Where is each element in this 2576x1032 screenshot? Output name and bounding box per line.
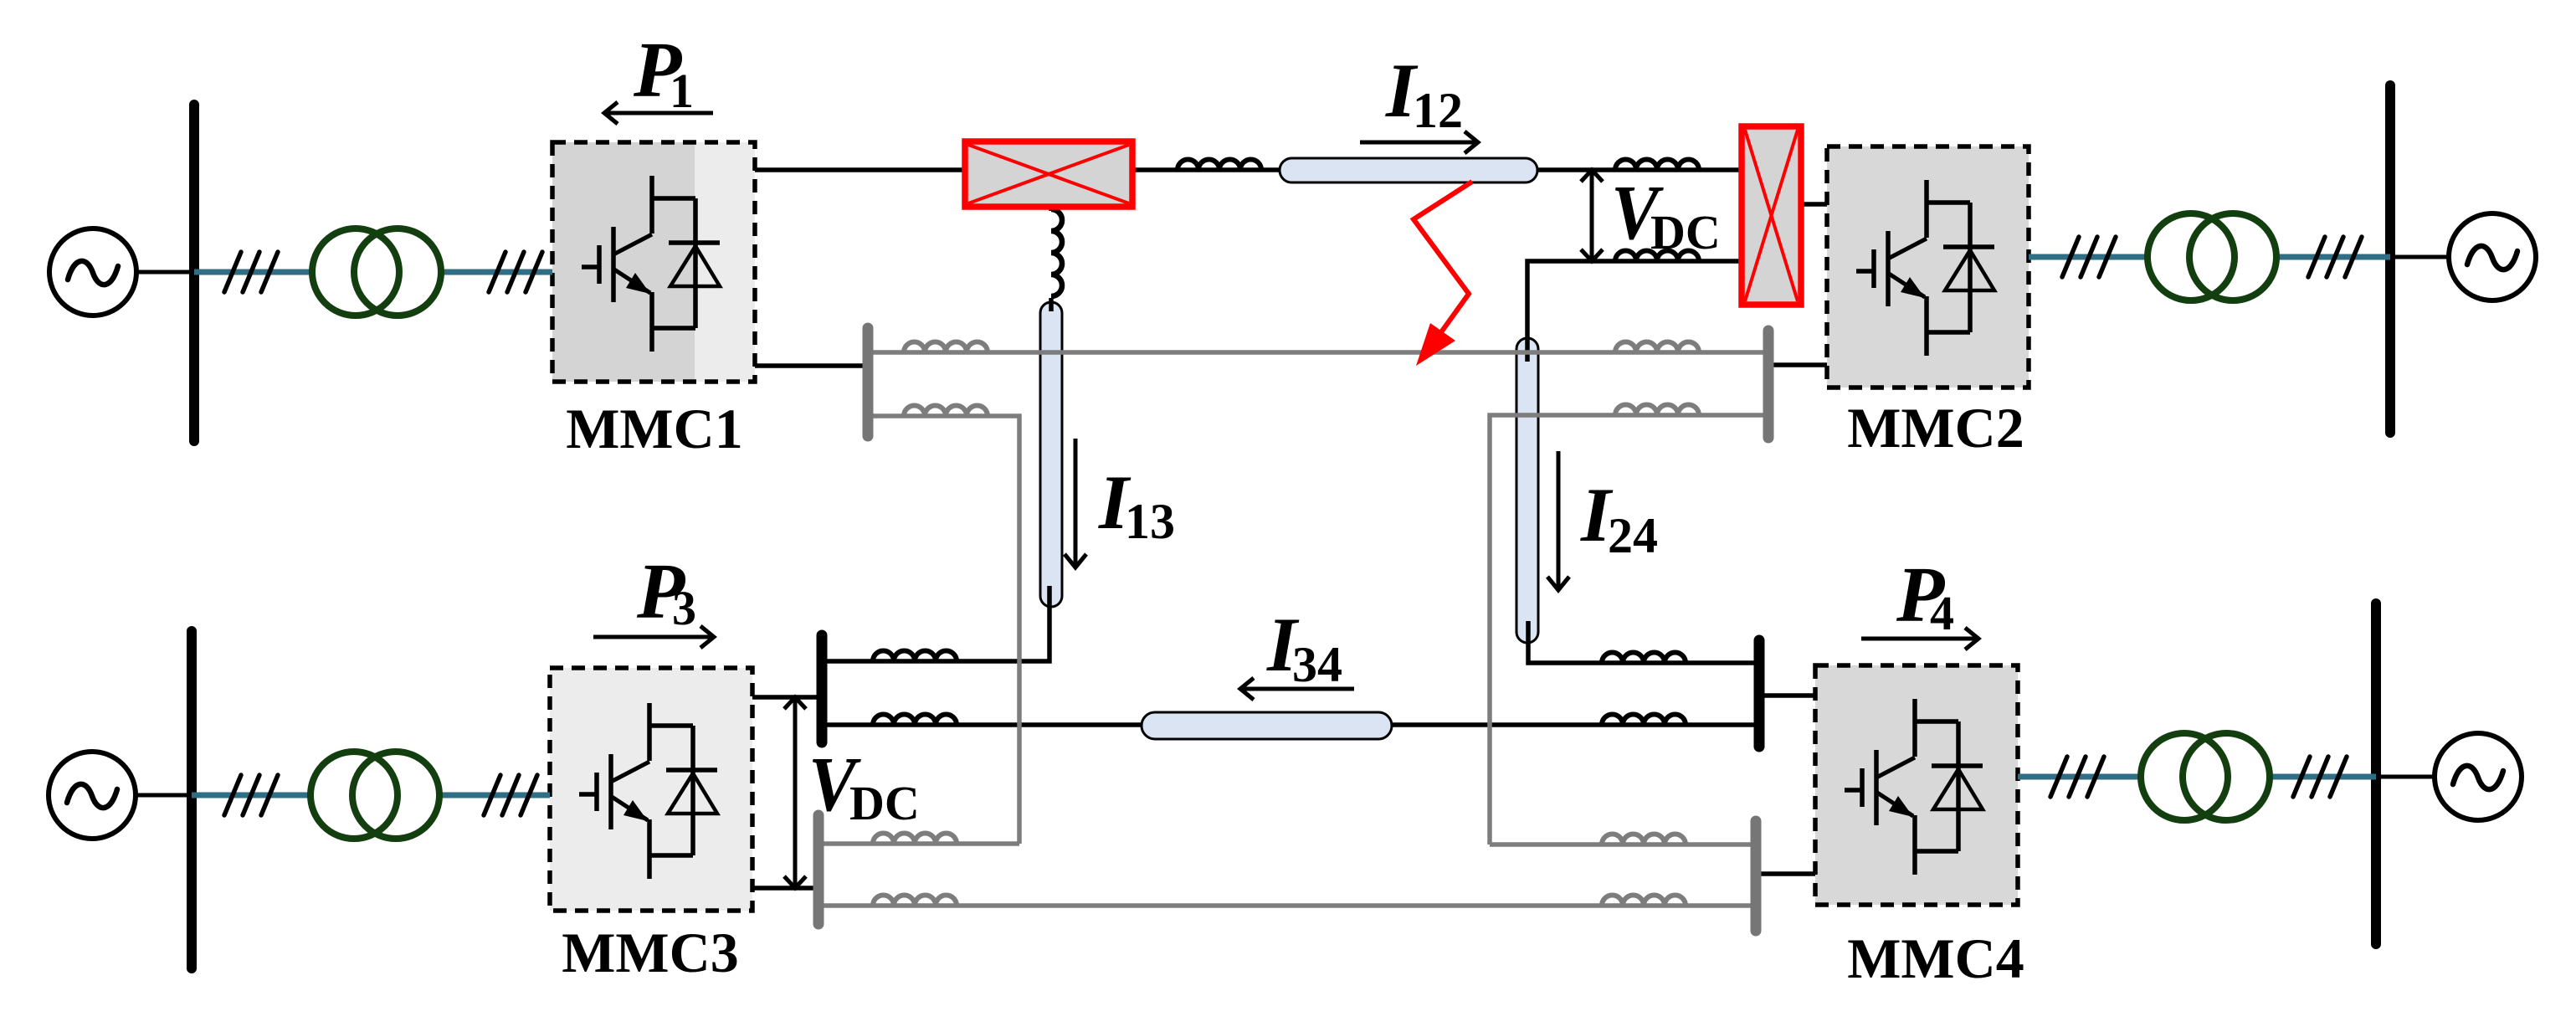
- wire: source G2 to bus: [2390, 255, 2449, 259]
- inductor L34b (MMC4 side of C34): [1602, 715, 1686, 726]
- slashes (3-phase marks) transformer-MMC1: [489, 252, 542, 292]
- wire: cable C12 to breaker B2: [1537, 167, 1742, 172]
- node: AC bus bar 2 (right top): [2385, 85, 2395, 433]
- inductor Lg5 (gray, MMC3 upper neg): [873, 834, 957, 845]
- label I13 with arrow: [1065, 439, 1175, 567]
- slashes (3-phase marks) transformer-bus2: [2308, 237, 2362, 277]
- wire: MMC4 positive port to bus: [1764, 693, 1815, 698]
- transformer T2: [2148, 213, 2276, 300]
- wire: source G1 to bus: [136, 270, 194, 275]
- breaker B2 (hybrid DC circuit breaker, red crossed box): [1742, 126, 1801, 305]
- label P1 with arrow: [604, 27, 713, 124]
- slashes (3-phase marks) bus3-transformer: [224, 775, 278, 815]
- converter MMC3 box: [550, 668, 752, 911]
- svg-text:13: 13: [1125, 494, 1175, 549]
- wire: bottom long gray rail MMC3 to MMC4: [824, 903, 1751, 908]
- inductor L13b (MMC3 top rail): [873, 651, 957, 662]
- label I24 with arrow: [1547, 451, 1658, 590]
- transistor IGBT of MMC1: [582, 176, 720, 352]
- wire: MMC4 negative port to gray bus: [1761, 871, 1815, 876]
- wire: MMC1 negative port to gray bus: [755, 363, 865, 368]
- AC source G2 (right top): [2449, 213, 2536, 300]
- transformer T1: [312, 228, 441, 316]
- vertical inductor L13a (below breaker B1): [1051, 209, 1062, 296]
- transistor IGBT of MMC3: [579, 703, 717, 879]
- svg-text:24: 24: [1608, 508, 1658, 563]
- node: gray DC bus of MMC2 (negative): [1763, 331, 1774, 438]
- slashes (3-phase marks) transformer-MMC3: [484, 775, 537, 815]
- inductor Lg7 (gray, bottom rail left): [873, 896, 957, 906]
- converter MMC4 box: [1815, 665, 2018, 905]
- slashes (3-phase marks) MMC2-transformer: [2062, 237, 2116, 277]
- label P4 with arrow: [1861, 552, 1978, 649]
- slashes (3-phase marks) transformer-bus4: [2293, 757, 2347, 797]
- svg-text:1: 1: [670, 64, 694, 118]
- inductor Lg1 (gray, top-left neg rail): [904, 342, 988, 353]
- inductor Lg2 (gray, top-right neg rail): [1615, 342, 1699, 353]
- wire: MMC3 negative port to gray bus: [752, 886, 813, 891]
- wire: lower rail corner to breaker B2 (MMC2 side): [1527, 261, 1742, 362]
- cable C34 (DC line 3-4): [1142, 712, 1392, 739]
- label VDC (bottom left) with double arrow: [784, 697, 920, 888]
- cable C13 (DC line 1-3): [1040, 302, 1062, 607]
- svg-text:4: 4: [1930, 586, 1954, 640]
- slashes (3-phase marks) MMC4-transformer: [2050, 757, 2104, 797]
- node: gray DC bus of MMC3 (negative): [813, 815, 824, 924]
- wire: gray drop from MMC1 neg bus to MMC3 (left): [873, 416, 1019, 844]
- converter MMC2 box: [1827, 146, 2029, 388]
- wire: AC line MMC2 to bus (teal): [2029, 254, 2390, 260]
- slashes (3-phase marks) bus1-transformer: [224, 252, 278, 292]
- svg-text:MMC3: MMC3: [562, 921, 738, 984]
- inductor L12b (top pole, right of cable): [1615, 160, 1699, 171]
- wire: breaker B1 to cable C12: [1132, 167, 1280, 172]
- wire: AC line bus to MMC3 (teal): [192, 793, 550, 798]
- wire: cable C24 bottom to MMC4 top rail: [1528, 621, 1754, 663]
- svg-text:DC: DC: [1650, 205, 1721, 259]
- wire: MMC3 upper gray rail to left drop: [824, 841, 1019, 846]
- inductor L34a (MMC3 side of C34): [873, 715, 957, 726]
- inductor Lg3 (gray, below top-left bus): [904, 406, 988, 417]
- inductor L12a (top pole, left of cable): [1178, 160, 1261, 171]
- label I12 with arrow: [1360, 48, 1478, 153]
- wire: MMC2 negative port to gray bus: [1773, 362, 1827, 367]
- transformer T4: [2141, 733, 2270, 820]
- transistor IGBT of MMC2: [1856, 180, 1994, 356]
- AC source G3 (left bottom): [49, 752, 136, 839]
- node: black DC bus of MMC4 (positive): [1754, 640, 1765, 747]
- inductor L24a (MMC2 lower rail): [1615, 251, 1699, 262]
- svg-text:12: 12: [1413, 83, 1463, 138]
- cable C24 (DC line 2-4): [1516, 338, 1538, 643]
- svg-text:MMC2: MMC2: [1847, 396, 2024, 460]
- inductor Lg6 (gray, MMC4 upper neg): [1602, 834, 1686, 845]
- svg-text:DC: DC: [849, 776, 920, 830]
- label VDC (top right) with double arrow: [1581, 170, 1721, 261]
- node: AC bus bar 3 (left bottom): [187, 631, 197, 968]
- wire: cable C13 bottom to MMC3 top rail: [827, 586, 1049, 661]
- transistor IGBT of MMC4: [1845, 699, 1983, 875]
- node: black DC bus of MMC3 (positive): [817, 635, 828, 742]
- label I34 with arrow: [1240, 602, 1354, 700]
- wire: gray drop from MMC2 neg bus to MMC4 (right): [1490, 415, 1763, 845]
- AC source G1 (left top): [49, 228, 136, 316]
- wire: source G4 to bus: [2376, 775, 2435, 779]
- fault lightning bolt (red): [1414, 182, 1472, 366]
- node: AC bus bar 1 (left top): [189, 105, 199, 441]
- node: AC bus bar 4 (right bottom): [2371, 603, 2381, 944]
- wire: MMC3 mid rail to cable C34: [827, 722, 1142, 727]
- svg-text:34: 34: [1292, 637, 1342, 692]
- wire: cable C34 to MMC4 bus: [1392, 722, 1754, 727]
- wire: MMC3 positive port to bus: [752, 695, 817, 700]
- svg-text:MMC4: MMC4: [1847, 927, 2024, 990]
- wire: negative pole top rail (gray, MMC1 to MMC2): [873, 350, 1763, 355]
- cable C12 (DC line 1-2): [1280, 158, 1537, 182]
- inductor Lg8 (gray, bottom rail right): [1602, 896, 1686, 906]
- label P3 with arrow: [593, 548, 714, 648]
- inductor L24b (MMC4 top rail): [1602, 653, 1686, 664]
- wire: MMC4 upper gray rail to right drop: [1490, 842, 1751, 847]
- wire: breaker B2 to MMC2 positive port: [1801, 202, 1827, 207]
- AC source G4 (right bottom): [2435, 733, 2522, 820]
- inductor Lg4 (gray, below top-right bus): [1615, 405, 1699, 416]
- node: gray DC bus of MMC4 (negative): [1751, 821, 1762, 931]
- wire: stub breaker B1 to vertical inductor: [1049, 204, 1054, 211]
- wire: AC line MMC4 to bus (teal): [2018, 774, 2376, 780]
- wire: positive pole top rail MMC1 to DC breaker B1: [755, 167, 965, 172]
- transformer T3: [310, 752, 439, 839]
- wire: AC line bus to MMC1 (teal): [194, 270, 552, 275]
- svg-text:3: 3: [672, 581, 696, 635]
- svg-text:MMC1: MMC1: [566, 397, 742, 460]
- converter MMC1 box: [552, 142, 755, 382]
- breaker B1 (hybrid DC circuit breaker, red crossed box): [965, 141, 1132, 207]
- node: gray DC bus of MMC1 (negative): [863, 328, 874, 436]
- wire: source G3 to bus: [136, 793, 192, 798]
